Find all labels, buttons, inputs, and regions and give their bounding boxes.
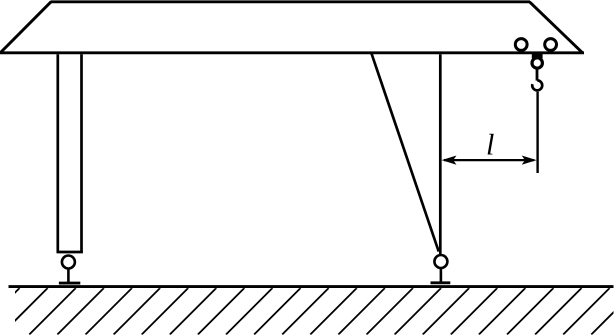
diagonal brace [372, 54, 439, 252]
svg-text:l: l [486, 129, 494, 162]
dimension arrowhead right [522, 156, 537, 165]
ground line [9, 285, 614, 288]
rope below hook [536, 92, 538, 173]
tabletop right slant edge [530, 2, 583, 53]
left pulley [515, 39, 527, 51]
left leg [57, 54, 83, 252]
pulley bracket [532, 52, 543, 58]
right leg [439, 54, 442, 254]
left caster stem [67, 269, 70, 284]
hook [532, 80, 542, 90]
left caster foot plate [59, 282, 80, 285]
hook shank [536, 69, 539, 81]
right caster wheel [434, 255, 447, 268]
dimension arrowhead left [442, 156, 457, 165]
right caster foot plate [431, 281, 451, 284]
tabletop left slant edge [1, 2, 52, 53]
pulley block sheave [532, 58, 542, 68]
ground hatching [0, 288, 616, 335]
right pulley [545, 39, 557, 51]
tabletop bottom edge [0, 51, 584, 54]
tabletop top edge [51, 0, 531, 3]
dimension arrow shaft [444, 159, 534, 161]
right caster stem [440, 268, 443, 283]
left caster wheel [62, 256, 75, 269]
